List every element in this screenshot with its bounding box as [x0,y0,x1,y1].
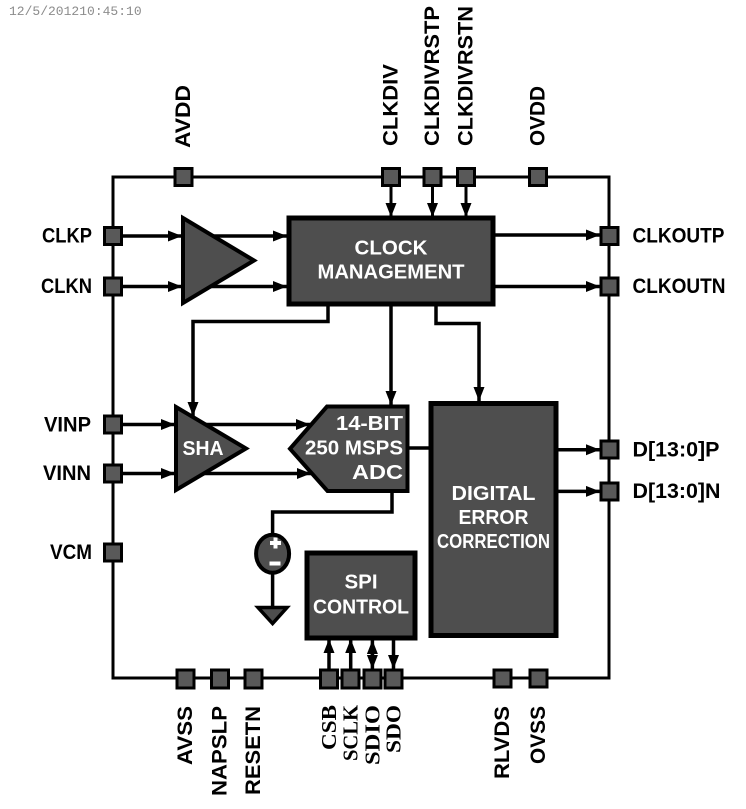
wire CLKDIVRSTP to clock management [431,186,434,217]
svg-text:ERROR: ERROR [459,507,530,529]
svg-text:DIGITAL: DIGITAL [452,483,536,505]
wire CLKP to clock buffer [117,234,182,238]
clock buffer amplifier [183,218,254,303]
wire SHA to ADC upper [176,423,310,427]
svg-text:AVDD: AVDD [172,85,195,148]
pad SCLK [342,670,359,688]
svg-text:VCM: VCM [50,541,92,564]
wire clock management to CLKOUTP pad [493,233,600,237]
wire clock buffer to clock management upper [183,234,287,238]
wire SCLK to SPI control [349,639,353,670]
wire VINP to SHA [117,423,175,427]
block 14-BIT 250 MSPS ADC [290,407,408,492]
svg-text:CONTROL: CONTROL [313,596,409,619]
svg-text:CLKOUTP: CLKOUTP [633,225,725,248]
svg-text:CLKDIVRSTN: CLKDIVRSTN [455,6,478,146]
wire CLKN to clock buffer [117,285,182,289]
svg-text:RESETN: RESETN [242,706,265,795]
pad CSB [321,670,338,688]
svg-text:NAPSLP: NAPSLP [209,706,232,796]
svg-text:CLKDIV: CLKDIV [380,64,403,146]
SHA sample and hold amplifier [176,407,246,490]
wire ADC to reference current source [273,490,392,534]
svg-text:OVDD: OVDD [527,86,550,146]
wire digital error correction to D[13:0]P pad [556,448,600,452]
pad VCM [105,544,122,561]
svg-text:D[13:0]P: D[13:0]P [633,439,720,462]
pad D[13:0]P [601,441,618,458]
wire CLKDIV to clock management [390,186,393,217]
svg-text:VINP: VINP [44,414,91,437]
pad OVDD [530,169,547,186]
pad NAPSLP [212,670,229,688]
svg-text:VINN: VINN [43,462,91,485]
svg-text:CLKOUTN: CLKOUTN [633,275,726,298]
wire SDIO to SPI control bidirectional [371,640,375,655]
svg-text:RLVDS: RLVDS [491,706,514,779]
block CLOCK MANAGEMENT [289,218,493,304]
pad CLKOUTN [601,278,618,295]
svg-text:SHA: SHA [183,438,224,460]
wire clock management to CLKOUTN pad [493,285,600,289]
wire ADC to digital error correction [407,446,431,450]
pad AVDD [175,169,192,186]
wire SHA to ADC lower [176,472,311,476]
chip outline box [113,177,609,678]
wire VINN to SHA [117,472,175,476]
wire clock management to ADC [389,302,393,405]
pad CLKOUTP [601,228,618,245]
svg-text:CLKP: CLKP [42,225,92,248]
svg-text:CSB: CSB [317,705,341,750]
svg-text:CLKDIVRSTP: CLKDIVRSTP [421,6,444,146]
wire clock buffer to clock management lower [183,285,287,289]
svg-text:D[13:0]N: D[13:0]N [633,480,721,503]
pad VINN [105,465,122,482]
pad AVSS [177,670,194,688]
svg-text:SCLK: SCLK [339,704,363,761]
svg-text:AVSS: AVSS [174,706,197,765]
pad RESETN [245,670,262,688]
pad OVSS [530,670,547,687]
wire CSB to SPI control [327,639,331,670]
reference current source [256,535,289,573]
pad VINP [105,416,122,433]
svg-text:SDO: SDO [382,705,406,753]
pad CLKDIV [383,169,400,186]
svg-text:250 MSPS: 250 MSPS [305,438,403,460]
pad SDIO [364,670,381,688]
block DIGITAL ERROR CORRECTION [431,404,556,636]
svg-text:14-BIT: 14-BIT [336,413,403,435]
block SPI CONTROL [307,553,415,638]
wire digital error correction to D[13:0]N pad [556,490,600,494]
pad CLKP [105,228,122,245]
pad CLKDIVRSTN [458,169,475,186]
wire CLKDIVRSTN to clock management [465,186,468,217]
svg-text:CLKN: CLKN [41,275,92,298]
svg-text:12/5/201210:45:10: 12/5/201210:45:10 [9,4,142,19]
pad D[13:0]N [601,483,618,500]
wire clock management to SHA [193,302,328,416]
wire reference current source to ground [271,574,275,607]
wire clock management to digital error correction [436,302,479,401]
pad CLKN [105,278,122,295]
pad CLKDIVRSTP [424,169,441,186]
svg-text:MANAGEMENT: MANAGEMENT [318,261,465,284]
svg-text:ADC: ADC [352,462,403,484]
svg-text:CORRECTION: CORRECTION [437,531,550,553]
svg-text:SPI: SPI [344,571,377,594]
wire SPI control to SDO pad [392,638,396,669]
pad SDO [385,670,402,688]
svg-text:CLOCK: CLOCK [355,237,428,260]
pad RLVDS [494,670,511,687]
ground [258,608,287,624]
svg-text:OVSS: OVSS [527,706,550,764]
